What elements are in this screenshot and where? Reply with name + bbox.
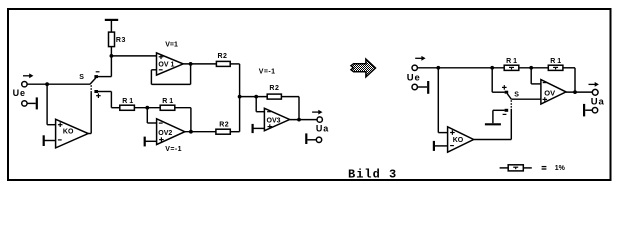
svg-text:R 1: R 1	[162, 98, 173, 105]
svg-text:R2: R2	[269, 85, 279, 92]
svg-text:OV: OV	[544, 89, 555, 98]
svg-text:Ue: Ue	[407, 73, 421, 84]
svg-text:Ua: Ua	[591, 96, 605, 107]
svg-text:OV3: OV3	[267, 117, 281, 124]
svg-text:R 1: R 1	[122, 98, 133, 105]
svg-text:1%: 1%	[555, 165, 566, 172]
svg-text:Bild 3: Bild 3	[348, 168, 397, 182]
svg-text:R 1: R 1	[550, 58, 561, 65]
svg-text:R3: R3	[116, 37, 126, 44]
svg-text:S: S	[79, 74, 84, 81]
svg-text:OV 1: OV 1	[158, 62, 174, 69]
svg-text:V=1: V=1	[165, 42, 178, 49]
svg-text:R2: R2	[219, 122, 229, 129]
svg-text:Ua: Ua	[316, 123, 329, 133]
svg-text:V=-1: V=-1	[259, 68, 276, 75]
svg-text:Ue: Ue	[13, 88, 26, 98]
svg-text:OV2: OV2	[158, 130, 172, 137]
svg-text:KO: KO	[453, 137, 464, 144]
svg-text:KO: KO	[63, 129, 74, 136]
svg-text:R2: R2	[218, 53, 228, 60]
svg-text:S: S	[514, 92, 519, 99]
svg-text:R 1: R 1	[506, 58, 517, 65]
svg-text:V=-1: V=-1	[165, 146, 182, 153]
